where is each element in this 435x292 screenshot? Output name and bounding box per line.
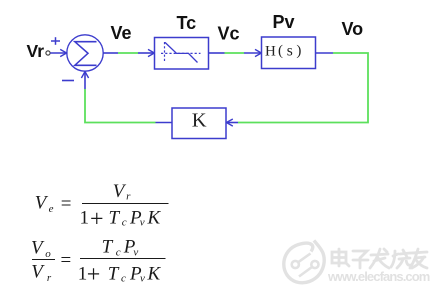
svg-text:K: K	[147, 263, 162, 284]
wire Vr input	[50, 52, 66, 54]
svg-text:o: o	[45, 248, 51, 260]
svg-text:r: r	[47, 272, 52, 284]
wire Vo and feedback down-right	[227, 53, 369, 123]
arrowhead into Pv block	[255, 49, 261, 56]
arrowhead into Tc block	[148, 49, 154, 56]
svg-text:=: =	[61, 194, 72, 215]
svg-text:(: (	[278, 43, 283, 59]
svg-text:): )	[296, 43, 301, 59]
svg-text:=: =	[61, 250, 72, 271]
plus sign at summing junction	[51, 37, 60, 45]
arrowhead into summing junction bottom	[81, 72, 88, 78]
svg-text:Tc: Tc	[177, 13, 197, 33]
svg-text:K: K	[147, 207, 162, 228]
block Pv H(s)	[262, 37, 316, 69]
equation 1: Ve = Vr / (1 + Tc Pv K)	[35, 181, 169, 232]
svg-text:Vc: Vc	[218, 24, 240, 44]
equation 2: Vo/Vr = Tc Pv / (1 + Tc Pv K)	[31, 237, 166, 288]
Tc block response curve	[161, 42, 201, 63]
svg-text:K: K	[192, 109, 207, 131]
block Tc (compensator)	[155, 38, 209, 70]
sigma symbol	[75, 42, 97, 66]
input terminal Vr	[46, 51, 50, 55]
wire Vc (Tc to Pv)	[209, 52, 262, 54]
svg-text:www.elecfans.com: www.elecfans.com	[327, 269, 430, 284]
H(s) text	[265, 43, 301, 60]
svg-text:Pv: Pv	[273, 12, 295, 32]
svg-text:v: v	[140, 217, 145, 229]
wire feedback (K to summing junction)	[85, 72, 172, 123]
watermark logo circle	[284, 241, 324, 283]
svg-text:s: s	[287, 43, 293, 60]
summing junction U1	[67, 35, 103, 71]
svg-text:+: +	[87, 262, 101, 288]
svg-text:r: r	[126, 191, 131, 203]
svg-text:Vo: Vo	[342, 19, 364, 39]
minus sign at summing junction	[62, 80, 74, 82]
arrowhead into summing junction	[60, 49, 66, 56]
svg-text:Ve: Ve	[111, 23, 132, 43]
svg-text:Vr: Vr	[27, 41, 45, 61]
svg-text:H: H	[265, 44, 276, 60]
svg-text:c: c	[116, 247, 121, 259]
svg-text:T: T	[109, 207, 121, 228]
svg-text:+: +	[90, 206, 104, 232]
svg-text:c: c	[122, 217, 127, 229]
svg-text:1: 1	[80, 207, 90, 228]
svg-text:c: c	[121, 273, 126, 285]
svg-text:v: v	[140, 273, 145, 285]
svg-text:T: T	[102, 237, 114, 258]
block K (feedback gain)	[172, 108, 226, 139]
svg-text:e: e	[49, 203, 54, 215]
wire Ve (summing junction to Tc)	[103, 52, 154, 54]
watermark chinese text 电子发烧友	[332, 249, 427, 268]
svg-text:v: v	[133, 247, 138, 259]
arrowhead into K block	[226, 119, 232, 126]
svg-text:T: T	[108, 263, 120, 284]
